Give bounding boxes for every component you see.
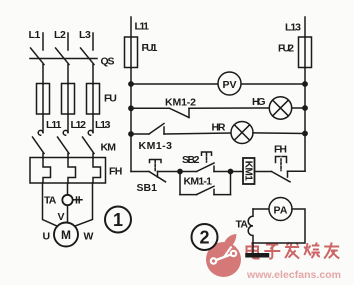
- svg-text:FU: FU: [104, 93, 117, 105]
- wire HR row right: [253, 132, 305, 135]
- right control bus: [304, 68, 306, 172]
- wire phase3 FH to motor: [75, 183, 93, 226]
- watermark logo: [206, 234, 241, 277]
- numbered circle 2: [192, 224, 218, 250]
- wire HR row mid: [164, 133, 231, 134]
- switch QS pole 2 blade: [56, 48, 70, 65]
- ground bar: [248, 253, 268, 258]
- svg-text:L11: L11: [46, 119, 62, 131]
- contact KM1-1 branch left riser: [179, 172, 181, 195]
- switch QS linkage bar: [30, 58, 97, 60]
- watermark char you: [324, 243, 339, 259]
- FH heater element 2: [68, 158, 76, 183]
- switch QS pole 1 blade: [31, 48, 45, 65]
- thermal contact FH: [272, 172, 291, 182]
- svg-text:1: 1: [113, 210, 123, 230]
- svg-text:TA: TA: [44, 195, 57, 207]
- wire HG row right: [292, 107, 305, 109]
- FH contact head: [276, 157, 287, 163]
- TA polarity tick marks: [73, 197, 82, 203]
- svg-text:www.elecfans.com: www.elecfans.com: [246, 269, 341, 281]
- FH heater element 3: [93, 158, 101, 183]
- contactor KM main contact 2: [63, 130, 68, 135]
- SB2 actuator: [202, 152, 212, 155]
- wire phase2 fuse to KM: [67, 114, 69, 133]
- node L3 wire: [92, 33, 94, 50]
- svg-text:SB2: SB2: [182, 154, 200, 166]
- svg-text:KM1: KM1: [242, 161, 253, 181]
- lamp HR: [231, 122, 253, 144]
- svg-text:PV: PV: [223, 79, 237, 91]
- svg-text:KM1-3: KM1-3: [139, 140, 173, 152]
- ammeter loop right wire: [253, 209, 305, 243]
- wire phase2 FH to TA: [67, 183, 69, 195]
- node L2 wire: [67, 33, 69, 50]
- numbered circle 1: [105, 207, 131, 233]
- svg-text:M: M: [61, 228, 71, 242]
- wire HG row left: [131, 107, 170, 109]
- wire phase1 QS to fuse: [42, 65, 44, 85]
- svg-text:W: W: [84, 231, 94, 243]
- wire phase1 fuse to KM: [42, 114, 44, 133]
- voltmeter PV: [218, 72, 241, 95]
- coil KM1: [243, 158, 255, 184]
- button SB2 start contact: [197, 163, 215, 172]
- ground wire: [252, 243, 254, 253]
- thermal relay FH heater box: [30, 158, 106, 184]
- watermark char shao: [304, 243, 320, 259]
- fuse FU2: [299, 37, 312, 68]
- fuse FU element 2: [62, 84, 75, 115]
- svg-text:L2: L2: [54, 29, 66, 41]
- svg-text:KM1-1: KM1-1: [184, 176, 213, 188]
- wire HG row mid: [189, 107, 269, 109]
- svg-text:HG: HG: [252, 96, 266, 108]
- fuse FU element 1: [37, 84, 50, 115]
- wire SB1 to SB2 junction: [180, 171, 197, 173]
- wire phase2 TA to motor: [67, 205, 69, 222]
- node L1 wire: [42, 33, 44, 50]
- svg-text:TA: TA: [236, 219, 249, 231]
- FH heater element 1: [43, 158, 51, 183]
- svg-text:FU2: FU2: [278, 43, 294, 55]
- svg-text:FU1: FU1: [142, 42, 158, 54]
- svg-text:L13: L13: [285, 22, 301, 34]
- ammeter PA: [269, 198, 292, 221]
- fuse FU element 3: [87, 84, 100, 115]
- contactor KM main contact 3: [88, 130, 93, 135]
- svg-text:KM1-2: KM1-2: [165, 97, 196, 109]
- junction dots: [128, 81, 308, 174]
- svg-text:FH: FH: [109, 166, 122, 178]
- svg-text:L12: L12: [71, 119, 87, 131]
- contact KM1-1: [180, 194, 197, 196]
- contactor KM main contact 1: [38, 130, 43, 135]
- TA secondary winding: [248, 209, 253, 243]
- KM1-1 branch right riser: [230, 172, 232, 195]
- wire coil to FH contact: [255, 171, 272, 173]
- watermark char fa: [285, 243, 299, 259]
- current transformer TA primary circle: [62, 195, 72, 205]
- svg-text:V: V: [58, 211, 65, 223]
- svg-text:FH: FH: [274, 144, 287, 156]
- wire junction to coil: [231, 171, 244, 173]
- watermark char dian: [247, 242, 260, 259]
- svg-text:L1: L1: [29, 29, 41, 41]
- svg-text:L13: L13: [95, 119, 111, 131]
- SB1 actuator: [150, 160, 162, 163]
- contact KM1-3: [149, 124, 164, 135]
- switch QS pole 3 blade: [81, 48, 95, 65]
- wire phase2 QS to fuse: [67, 65, 69, 85]
- svg-text:L11: L11: [135, 21, 150, 33]
- watermark char zi: [264, 245, 280, 259]
- svg-text:QS: QS: [101, 56, 115, 68]
- svg-text:U: U: [43, 231, 51, 243]
- svg-text:SB1: SB1: [137, 182, 158, 194]
- svg-text:L3: L3: [79, 29, 91, 41]
- wire HR row left: [131, 133, 149, 135]
- wire phase3 QS to fuse: [92, 65, 94, 85]
- svg-text:HR: HR: [212, 122, 226, 134]
- svg-text:KM: KM: [101, 142, 117, 154]
- svg-text:PA: PA: [274, 205, 288, 217]
- fuse FU1: [125, 37, 138, 68]
- wire row4 from bus: [131, 171, 149, 173]
- wire PV row: [131, 83, 305, 85]
- ammeter loop top wire: [253, 208, 269, 210]
- svg-text:2: 2: [199, 228, 209, 248]
- button SB1 stop contact: [149, 172, 166, 182]
- node L11 wire: [130, 17, 132, 37]
- left control bus: [130, 68, 132, 172]
- lamp HG: [269, 97, 291, 119]
- wire phase3 fuse to KM: [92, 114, 94, 133]
- motor M circle: [54, 223, 78, 247]
- wire phase1 FH to motor: [43, 183, 58, 226]
- contact KM1-2: [170, 108, 190, 117]
- node L13 wire: [304, 17, 306, 37]
